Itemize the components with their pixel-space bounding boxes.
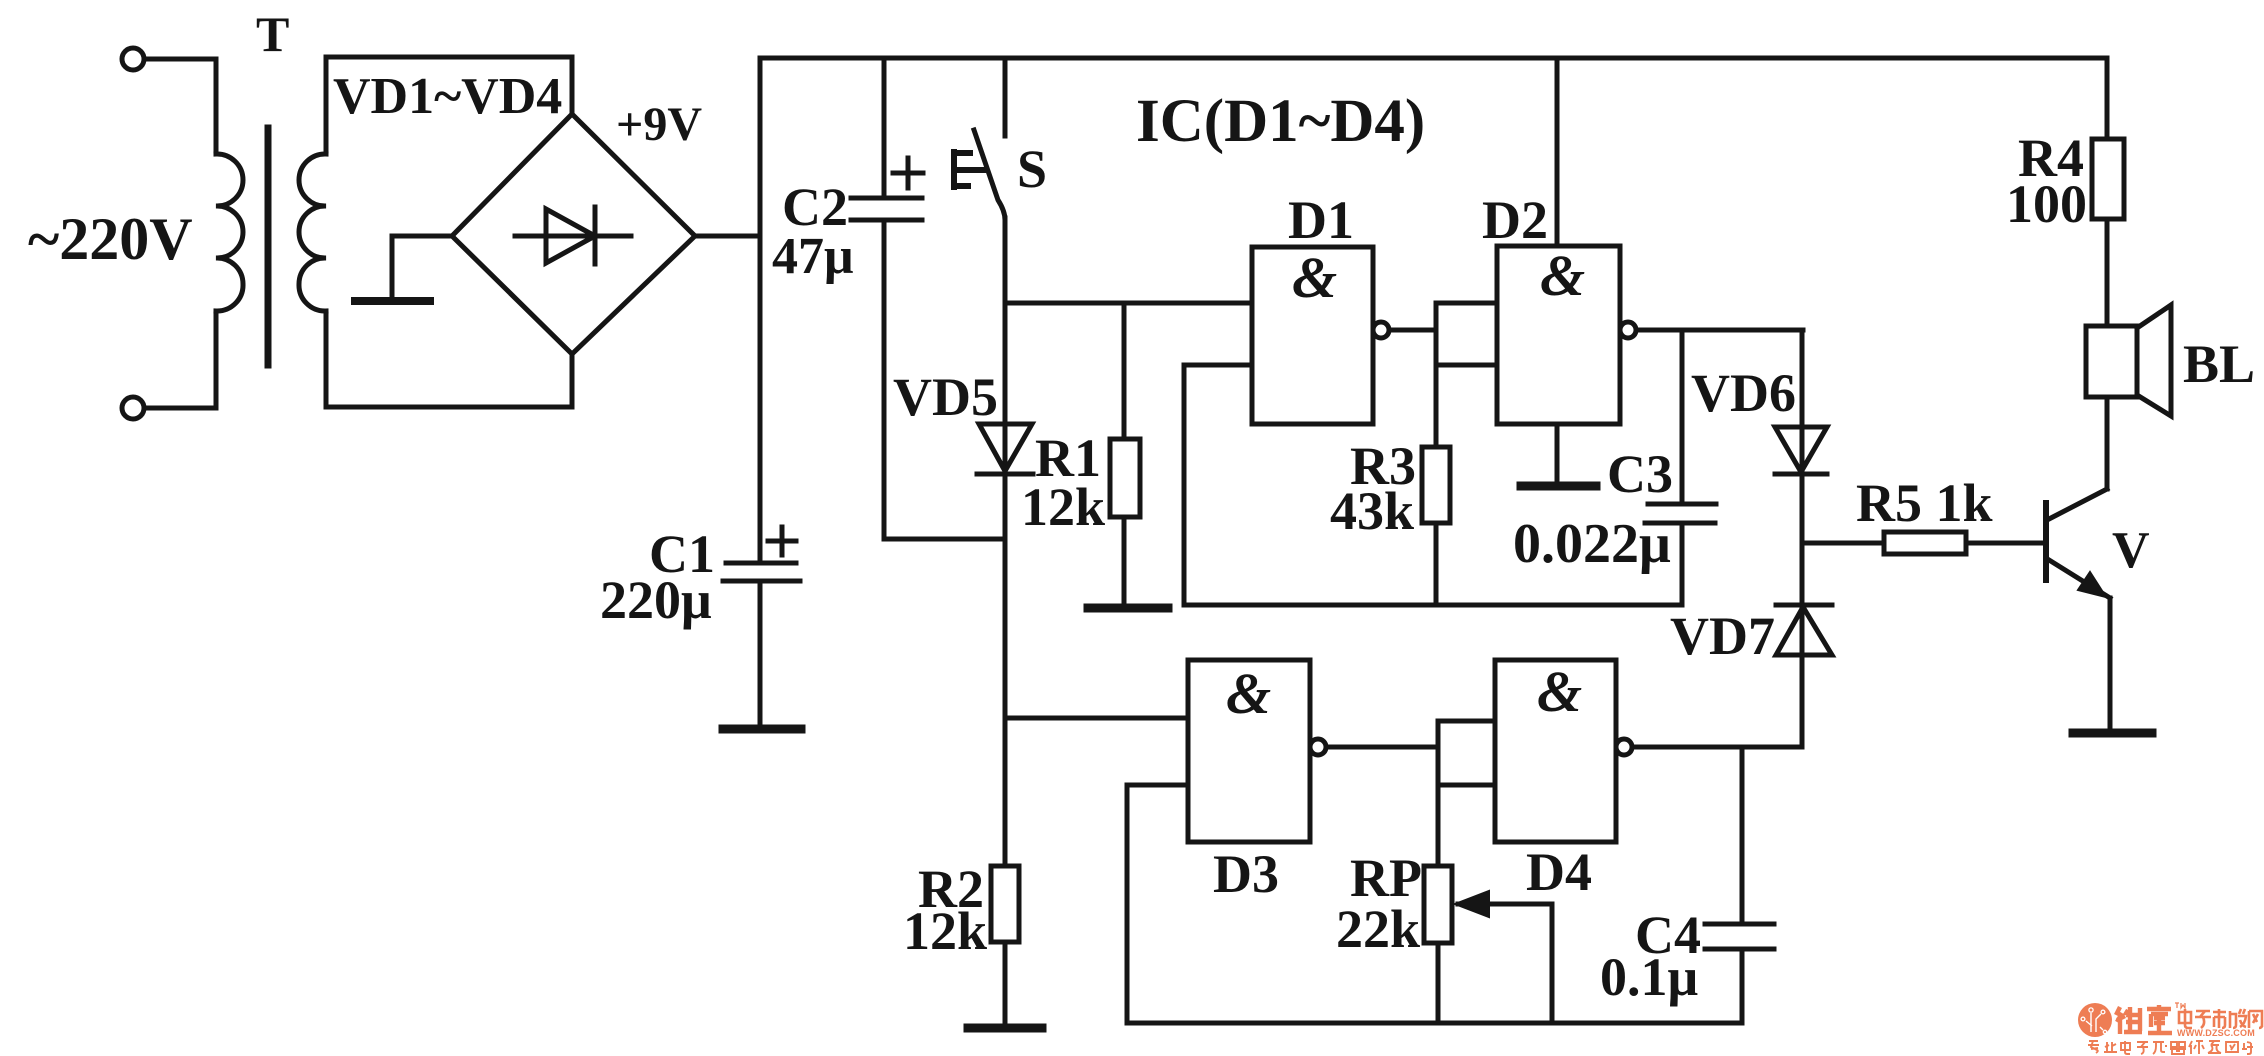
svg-text:D4: D4 [1526, 842, 1592, 902]
svg-text:T: T [256, 6, 289, 62]
svg-text:D3: D3 [1213, 844, 1279, 904]
svg-text:&: & [1226, 661, 1271, 726]
svg-text:12k: 12k [1021, 477, 1105, 537]
svg-text:BL: BL [2183, 334, 2255, 394]
svg-text:12k: 12k [903, 901, 987, 961]
svg-text:V: V [2112, 522, 2150, 579]
svg-text:100: 100 [2006, 174, 2087, 234]
svg-text:~220V: ~220V [28, 206, 193, 272]
svg-text:+9V: +9V [616, 98, 702, 151]
svg-text:47μ: 47μ [772, 228, 853, 285]
svg-text:IC(D1~D4): IC(D1~D4) [1136, 88, 1425, 155]
svg-text:WWW.DZSC.COM: WWW.DZSC.COM [2177, 1028, 2255, 1038]
svg-text:VD5: VD5 [893, 367, 998, 427]
svg-text:S: S [1017, 139, 1047, 199]
svg-text:0.1μ: 0.1μ [1600, 947, 1698, 1007]
svg-text:22k: 22k [1336, 899, 1420, 959]
svg-text:R5 1k: R5 1k [1856, 473, 1993, 533]
svg-text:D1: D1 [1288, 190, 1354, 250]
svg-text:D2: D2 [1482, 190, 1548, 250]
svg-text:VD1~VD4: VD1~VD4 [333, 68, 562, 125]
svg-text:0.022μ: 0.022μ [1513, 513, 1671, 575]
svg-text:C3: C3 [1607, 444, 1673, 504]
svg-text:&: & [1292, 245, 1337, 310]
svg-text:220μ: 220μ [600, 570, 712, 630]
svg-text:VD6: VD6 [1691, 363, 1796, 423]
svg-text:&: & [1540, 243, 1585, 308]
svg-text:&: & [1537, 659, 1582, 724]
svg-text:VD7: VD7 [1670, 606, 1775, 666]
svg-text:43k: 43k [1330, 481, 1414, 541]
